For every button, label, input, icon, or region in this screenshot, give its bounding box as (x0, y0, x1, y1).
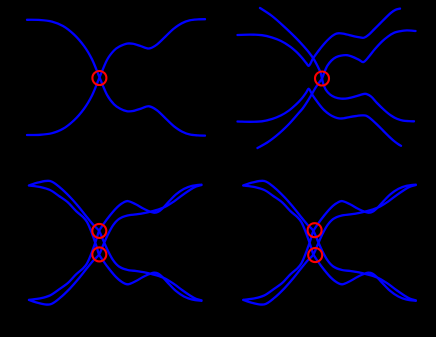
panel 2 outer descending band (260, 8, 414, 121)
panel 1 crossing circle (92, 71, 106, 85)
panel 4 band C (243, 185, 415, 305)
panel 1 descending band (27, 20, 205, 136)
panel 4 band B (243, 186, 415, 301)
panel 3 band D (29, 185, 202, 300)
panel 3 lower circle (92, 247, 106, 261)
panel 2 inner upper band (238, 9, 401, 66)
panel 4 upper circle (308, 223, 322, 237)
panel 1 ascending band (27, 19, 205, 135)
panel 3 upper circle (92, 224, 106, 238)
panel 4 band D (243, 185, 415, 300)
panel 2 outer ascending band (258, 30, 416, 148)
panel 3 band A (29, 181, 202, 301)
panel 3 band B (29, 186, 202, 301)
panel 2 inner lower band (238, 89, 402, 146)
panel 2 crossing circle (315, 72, 329, 86)
panel 4 lower circle (308, 248, 322, 262)
panel 3 band C (29, 185, 202, 305)
panel 4 band A (243, 181, 415, 301)
